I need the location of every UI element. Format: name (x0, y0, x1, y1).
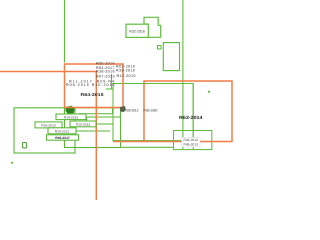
green long vertical x=182.9 (182, 0, 184, 150)
svg-text:R14-2013: R14-2013 (64, 115, 79, 119)
svg-text:R07-2013: R07-2013 (96, 75, 115, 79)
svg-text:R06-1982: R06-1982 (144, 108, 158, 112)
orange polyline: horizontal y=71.5 then vertical x=96.3 (0, 72, 96, 201)
svg-text:R09-2012: R09-2012 (125, 108, 139, 112)
svg-text:R63-2014: R63-2014 (179, 115, 203, 120)
svg-text:R38-2016: R38-2016 (96, 70, 115, 74)
green stub horizontal y=89 (106, 88, 114, 90)
orange rectangle top (65, 64, 124, 108)
svg-text:R15-2013: R15-2013 (76, 123, 91, 127)
svg-text:R38-2016: R38-2016 (116, 68, 135, 72)
svg-text:R84-2015: R84-2015 (81, 92, 105, 97)
green vline x=112.5 (112, 108, 114, 114)
green dot bottom-left (11, 162, 13, 164)
green vertical x=193.2 (192, 84, 194, 150)
right column labels (116, 64, 136, 78)
orange bottom extension (113, 141, 144, 143)
central green rect (113, 84, 193, 141)
svg-text:R41-2016: R41-2016 (117, 74, 136, 78)
dark green flag blob (66, 106, 75, 114)
svg-text:R45-2013: R45-2013 (183, 142, 198, 146)
bottom green rect (R44/R45) (174, 131, 212, 150)
svg-text:R16-2013: R16-2013 (41, 124, 56, 128)
green dot center-right (208, 91, 210, 93)
green rect top-center-right (163, 43, 179, 71)
green hline extension y=147.3 (121, 146, 174, 148)
green vertical line top-left x=64.5 (64, 0, 66, 63)
svg-text:R02-2016: R02-2016 (129, 30, 145, 34)
center labels R09-2012 / R06-1982 (125, 108, 158, 112)
left column labels (66, 62, 115, 87)
green hline y=113.8 (78, 113, 113, 115)
green step polygon top-center (144, 17, 161, 37)
green stub vertical x=111.5 (111, 74, 113, 89)
small green square (158, 46, 162, 50)
R44/R45 label box (182, 137, 201, 147)
cluster label boxes (35, 114, 96, 140)
bottom-left green rect B (65, 108, 121, 148)
svg-text:R06-2017: R06-2017 (55, 136, 70, 140)
big orange rectangle (144, 81, 232, 142)
cluster texts (41, 115, 90, 140)
svg-text:R08-2016 R10-2016: R08-2016 R10-2016 (66, 83, 115, 87)
svg-text:R28-2012: R28-2012 (55, 129, 70, 133)
dark blob at orange corner (120, 106, 126, 112)
tiny 0 box (23, 143, 27, 149)
cluster leader lines (76, 117, 121, 131)
label box R02-2016 (126, 24, 148, 37)
bottom-left green rect A (14, 108, 75, 153)
